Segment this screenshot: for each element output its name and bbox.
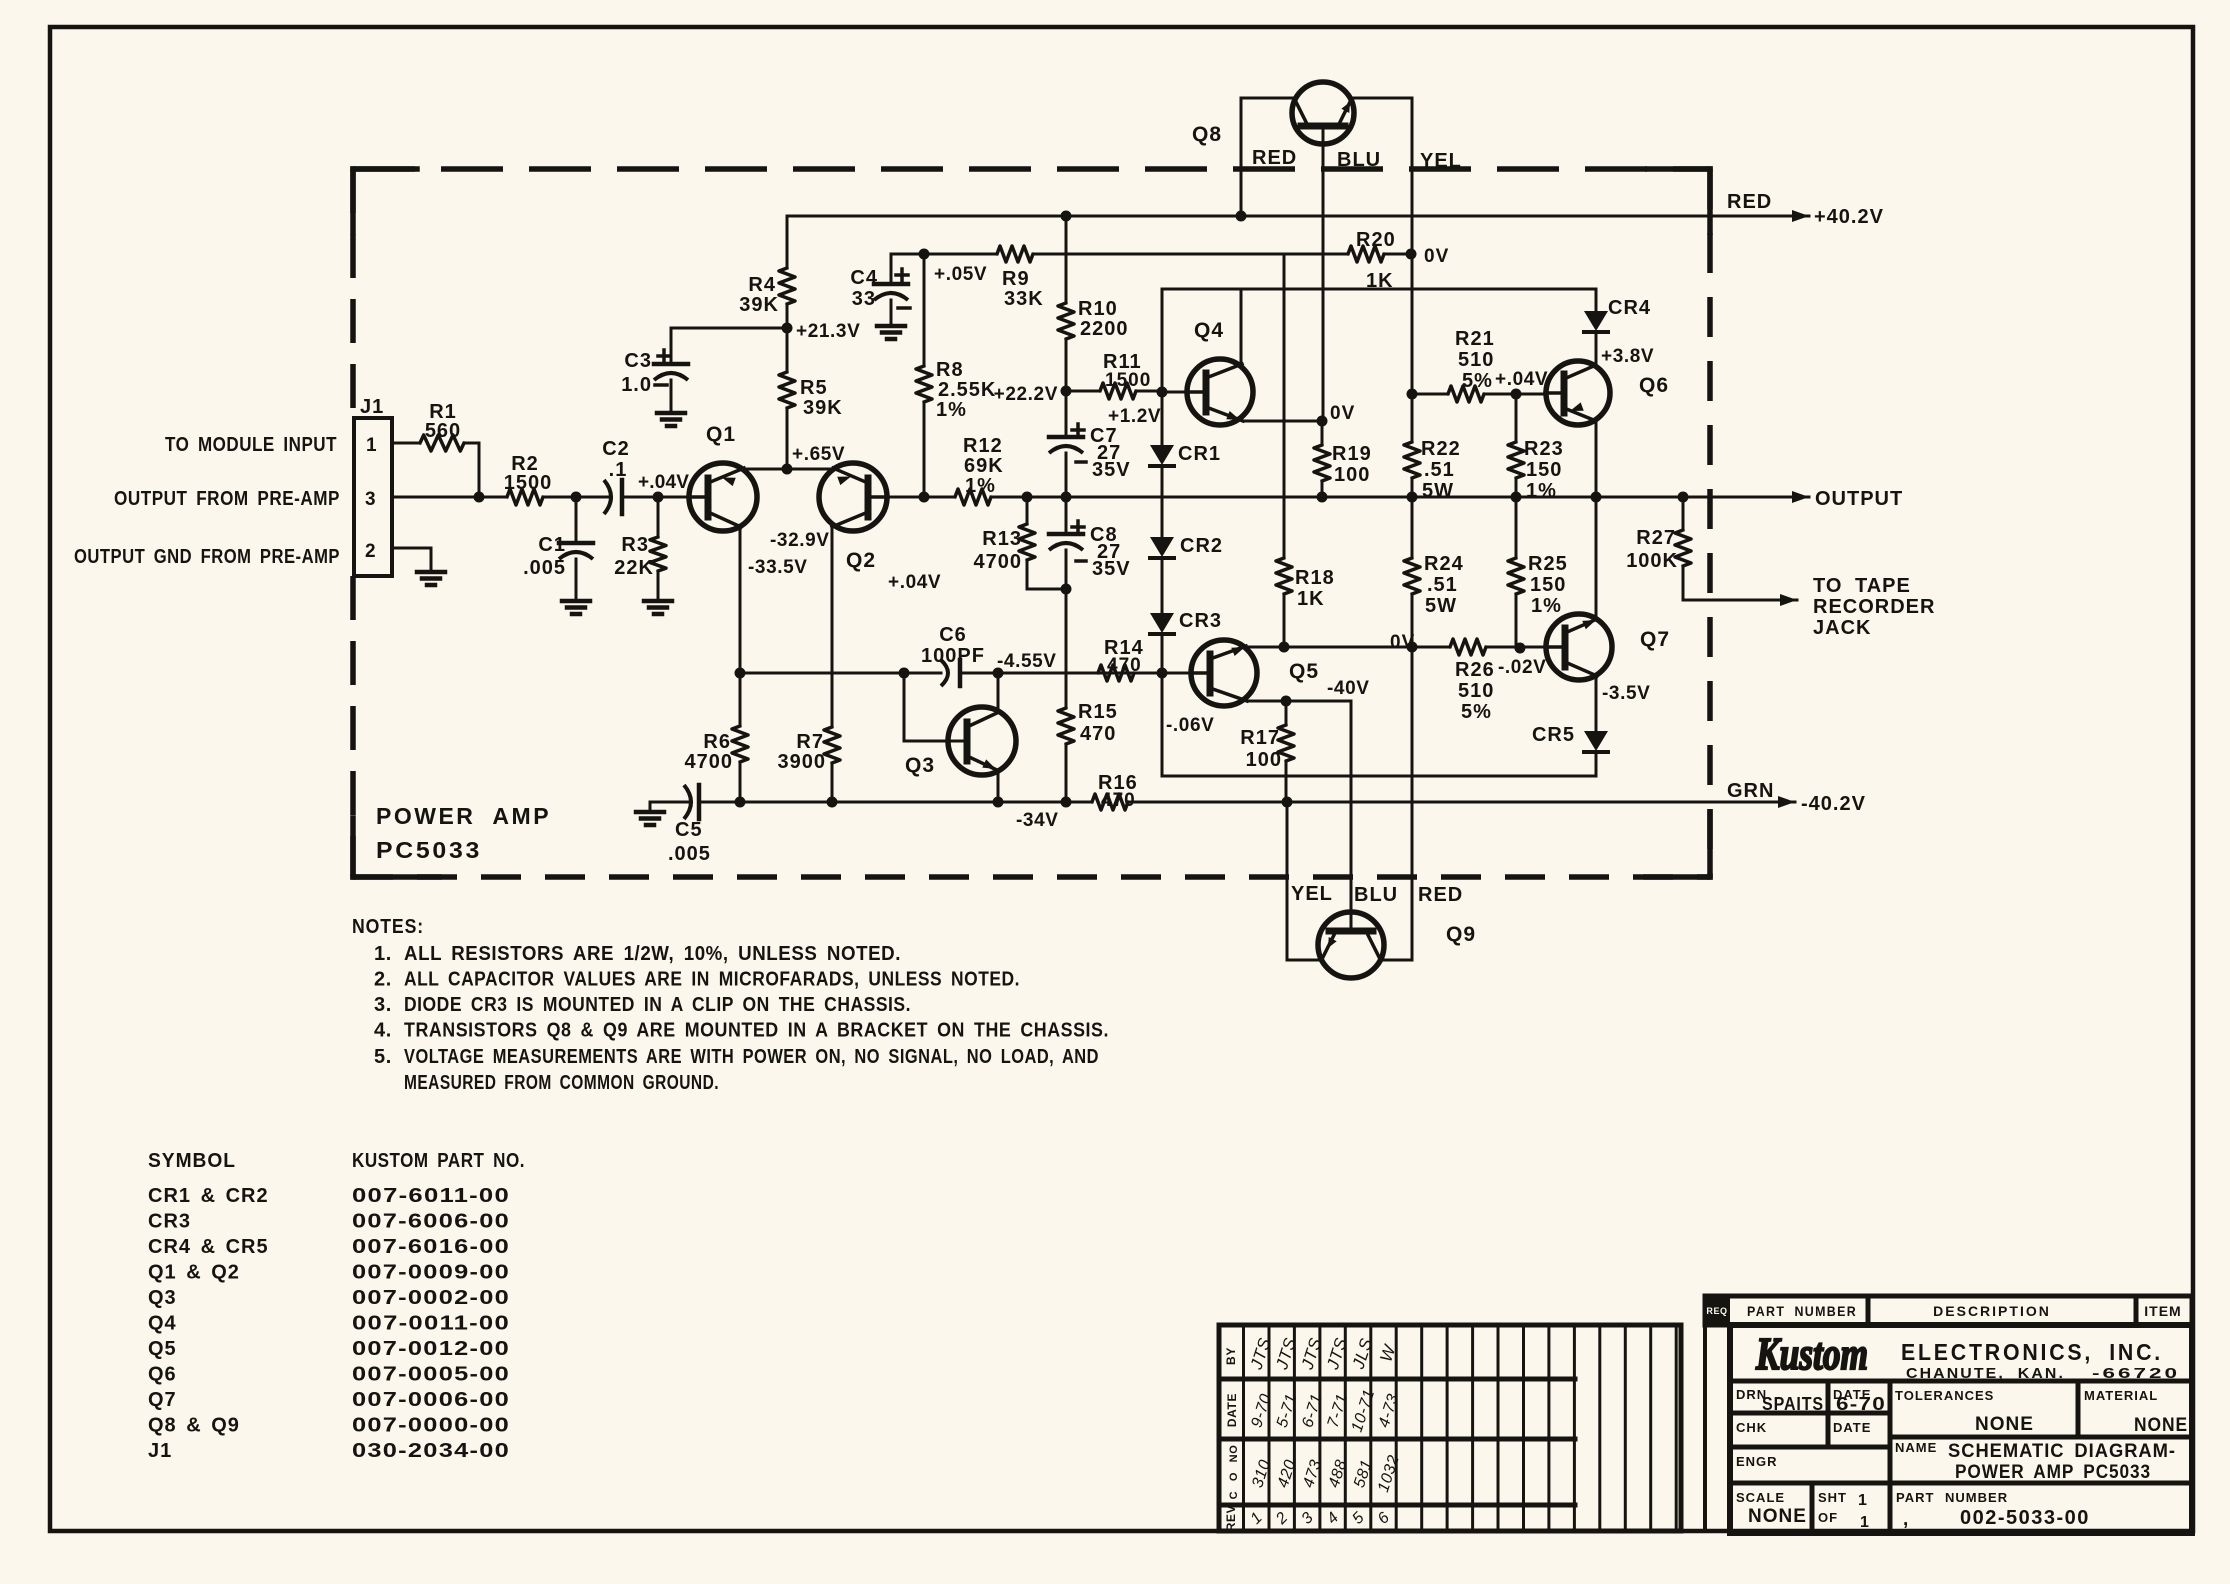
capacitor C5 xyxy=(668,785,711,865)
svg-text:+.04V: +.04V xyxy=(638,472,689,493)
wire node to R3 xyxy=(657,497,660,537)
svg-text:C5: C5 xyxy=(675,819,703,841)
svg-text:DIODE CR3 IS MOUNTED IN A CLIP: DIODE CR3 IS MOUNTED IN A CLIP ON THE CH… xyxy=(404,994,911,1016)
label -32.9V xyxy=(770,530,830,551)
resistor R13 xyxy=(974,524,1036,573)
wire R21 line xyxy=(1412,393,1545,396)
wire C4 to ground xyxy=(890,300,893,326)
svg-text:.51: .51 xyxy=(1424,459,1455,481)
svg-text:C1: C1 xyxy=(538,534,566,556)
wire R11 line xyxy=(1066,390,1162,393)
wire C8 top xyxy=(1065,497,1068,534)
label 0V mid xyxy=(1390,632,1415,653)
svg-text:Q7: Q7 xyxy=(1640,628,1670,651)
wire R5 to +21.3V node xyxy=(786,328,789,372)
svg-text:150: 150 xyxy=(1526,459,1562,481)
svg-text:R21: R21 xyxy=(1455,328,1495,350)
capacitor C7 xyxy=(1049,424,1131,481)
svg-text:+.05V: +.05V xyxy=(934,264,987,285)
svg-text:.51: .51 xyxy=(1427,574,1458,596)
svg-text:-33.5V: -33.5V xyxy=(748,557,808,578)
svg-text:GRN: GRN xyxy=(1727,780,1774,802)
svg-text:510: 510 xyxy=(1458,349,1494,371)
label +21.3V xyxy=(796,321,860,342)
node R3 junction xyxy=(653,492,664,503)
capacitor C8 xyxy=(1049,521,1131,580)
wire Q3 emitter xyxy=(997,771,1000,802)
wire R8 top xyxy=(923,254,926,366)
J1 pin 2 xyxy=(365,541,376,562)
svg-text:ENGR: ENGR xyxy=(1736,1454,1778,1469)
svg-text:Q3: Q3 xyxy=(148,1287,177,1309)
resistor R8 xyxy=(916,359,996,421)
arrow -40.2V xyxy=(1778,793,1866,815)
module outline corner pieces xyxy=(353,169,1710,877)
node Q6Q7 xyxy=(1591,492,1602,503)
wire CR4 to Q6 xyxy=(1595,332,1598,365)
wire RED bottom xyxy=(1382,647,1412,960)
svg-text:Q2: Q2 xyxy=(846,549,876,572)
svg-text:+3.8V: +3.8V xyxy=(1601,346,1654,367)
node R13 top xyxy=(1022,492,1033,503)
resistor R17 xyxy=(1240,701,1294,802)
svg-text:3900: 3900 xyxy=(778,751,827,773)
wire Q4 base xyxy=(1162,391,1190,394)
wire -34V rail xyxy=(661,801,1795,804)
wire R26 line xyxy=(1412,646,1546,649)
label -.02V xyxy=(1498,657,1546,678)
svg-text:+.65V: +.65V xyxy=(792,444,845,465)
svg-text:DESCRIPTION: DESCRIPTION xyxy=(1933,1303,2051,1319)
svg-text:33: 33 xyxy=(852,288,876,310)
title NAME xyxy=(1895,1440,2176,1483)
svg-text:002-5033-00: 002-5033-00 xyxy=(1960,1507,2090,1529)
svg-text:CHK: CHK xyxy=(1736,1420,1767,1435)
connector J1 label xyxy=(360,396,384,418)
svg-text:3.: 3. xyxy=(374,994,392,1016)
svg-text:CR4: CR4 xyxy=(1608,297,1651,319)
svg-text:39K: 39K xyxy=(803,397,843,419)
svg-text:-32.9V: -32.9V xyxy=(770,530,830,551)
svg-text:5%: 5% xyxy=(1461,701,1492,723)
transistor Q9 xyxy=(1318,912,1476,978)
node Q7 base xyxy=(1515,643,1526,654)
svg-text:.005: .005 xyxy=(668,843,711,865)
svg-text:SCHEMATIC DIAGRAM-: SCHEMATIC DIAGRAM- xyxy=(1948,1441,2176,1462)
svg-text:Q8 & Q9: Q8 & Q9 xyxy=(148,1415,240,1437)
svg-text:470: 470 xyxy=(1101,790,1136,811)
label 0V top xyxy=(1424,246,1449,267)
svg-text:Q6: Q6 xyxy=(148,1364,177,1386)
label BLU Q9 xyxy=(1354,884,1398,906)
svg-text:6-70: 6-70 xyxy=(1836,1394,1886,1414)
svg-text:69K: 69K xyxy=(964,455,1004,477)
connector J1 box xyxy=(354,418,392,576)
title header row xyxy=(1705,1296,2192,1325)
svg-text:J1: J1 xyxy=(360,396,384,418)
svg-text:5W: 5W xyxy=(1425,595,1457,617)
svg-text:R5: R5 xyxy=(800,377,828,399)
wire R6 xyxy=(739,673,742,802)
resistor R2 xyxy=(504,453,553,505)
wire R10 to +22.2V node xyxy=(1065,339,1068,391)
wire YEL bottom xyxy=(1287,802,1320,960)
node R5 bottom xyxy=(782,464,793,475)
wire rail to R10 xyxy=(1065,216,1068,303)
label OUTPUT GND FROM PRE-AMP xyxy=(74,546,340,568)
svg-text:1500: 1500 xyxy=(1105,370,1151,391)
svg-text:CR1 & CR2: CR1 & CR2 xyxy=(148,1185,269,1207)
svg-text:Q4: Q4 xyxy=(148,1313,177,1335)
node 0V R20 xyxy=(1406,249,1417,260)
svg-text:1%: 1% xyxy=(1526,480,1557,502)
svg-text:Q1: Q1 xyxy=(706,423,736,446)
svg-text:Q5: Q5 xyxy=(1289,660,1319,683)
title DRN xyxy=(1736,1387,1824,1414)
title company xyxy=(1901,1339,2180,1382)
label RED top right xyxy=(1727,191,1772,213)
ground J1 pin2 xyxy=(417,572,445,585)
resistor R19 xyxy=(1314,443,1372,486)
svg-text:RED: RED xyxy=(1252,147,1297,169)
wire CR1 CR2 xyxy=(1161,466,1164,537)
wire R4 to +40.2V rail xyxy=(786,216,789,268)
ground R3 xyxy=(644,601,672,614)
svg-text:YEL: YEL xyxy=(1420,150,1462,172)
wire Q8 RED xyxy=(1241,98,1295,216)
svg-text:-.06V: -.06V xyxy=(1166,715,1214,736)
svg-text:-40.2V: -40.2V xyxy=(1801,793,1866,815)
resistor R16 xyxy=(1092,772,1138,811)
title header labels xyxy=(1706,1303,2181,1319)
transistor Q3 xyxy=(905,707,1016,777)
transistor Q8 xyxy=(1192,82,1354,146)
label YEL Q8 xyxy=(1420,150,1462,172)
svg-text:2200: 2200 xyxy=(1080,318,1129,340)
resistor R10 xyxy=(1058,298,1129,340)
svg-text:SYMBOL: SYMBOL xyxy=(148,1150,236,1172)
arrow OUTPUT xyxy=(1792,488,1903,510)
node C7 output rail xyxy=(1061,492,1072,503)
svg-text:007-0011-00: 007-0011-00 xyxy=(352,1313,510,1335)
svg-text:NONE: NONE xyxy=(1975,1414,2034,1435)
svg-text:MATERIAL: MATERIAL xyxy=(2084,1388,2158,1403)
transistor Q1 xyxy=(689,423,757,531)
label +22.2V xyxy=(994,384,1058,405)
wire pin2 to ground xyxy=(392,548,431,572)
svg-text:.1: .1 xyxy=(609,459,628,481)
resistor R7 xyxy=(778,727,841,773)
wire CR5 bottom xyxy=(1595,752,1598,776)
label GRN xyxy=(1727,780,1774,802)
wire R13 elbow xyxy=(1027,560,1066,589)
transistor Q7 xyxy=(1546,614,1670,680)
arrow tape recorder xyxy=(1780,594,1797,606)
svg-text:+.04V: +.04V xyxy=(888,572,941,593)
node R6 bottom xyxy=(735,797,746,808)
svg-text:Q9: Q9 xyxy=(1446,923,1476,946)
notes list xyxy=(374,943,1109,1094)
parts list rows xyxy=(148,1185,510,1462)
wire node to C1 xyxy=(575,497,578,543)
svg-text:R17: R17 xyxy=(1240,727,1280,749)
svg-text:470: 470 xyxy=(1080,723,1116,745)
svg-text:CR1: CR1 xyxy=(1178,443,1221,465)
svg-text:ELECTRONICS, INC.: ELECTRONICS, INC. xyxy=(1901,1339,2163,1365)
svg-text:C3: C3 xyxy=(624,350,652,372)
module outline dashed left xyxy=(350,169,356,877)
svg-text:100: 100 xyxy=(1334,464,1370,486)
wire R8 bottom xyxy=(923,402,926,497)
svg-text:470: 470 xyxy=(1107,655,1142,676)
svg-text:SCALE: SCALE xyxy=(1736,1490,1785,1505)
wire R2 to C2 xyxy=(543,496,610,499)
wire C3 to ground xyxy=(670,380,673,413)
svg-text:RECORDER: RECORDER xyxy=(1813,596,1935,618)
wire Q1 collector xyxy=(739,527,742,673)
node R23R25 xyxy=(1511,492,1522,503)
svg-text:R26: R26 xyxy=(1455,659,1495,681)
label +1.2V xyxy=(1108,406,1161,427)
label +.05V xyxy=(934,264,987,285)
label RED Q8 xyxy=(1252,147,1297,169)
svg-text:1500: 1500 xyxy=(504,472,553,494)
wire Q7 emitter xyxy=(1595,497,1598,619)
svg-text:007-0000-00: 007-0000-00 xyxy=(352,1415,510,1437)
svg-text:+40.2V: +40.2V xyxy=(1814,206,1884,228)
node R21 YEL xyxy=(1407,389,1418,400)
label -40V xyxy=(1327,678,1370,699)
svg-text:R23: R23 xyxy=(1524,438,1564,460)
wire Q2 collector xyxy=(831,527,834,727)
svg-text:5%: 5% xyxy=(1462,370,1493,392)
svg-text:Q6: Q6 xyxy=(1639,374,1669,397)
svg-text:KUSTOM PART NO.: KUSTOM PART NO. xyxy=(352,1150,525,1172)
svg-text:R6: R6 xyxy=(703,731,731,753)
resistor R25 xyxy=(1508,497,1568,648)
svg-text:C O NO: C O NO xyxy=(1228,1445,1240,1500)
svg-text:1: 1 xyxy=(1860,1514,1870,1531)
node 0V RED xyxy=(1407,642,1418,653)
svg-text:REQ: REQ xyxy=(1706,1306,1727,1316)
svg-text:030-2034-00: 030-2034-00 xyxy=(352,1440,510,1462)
node RED top xyxy=(1236,211,1247,222)
svg-text:TRANSISTORS Q8 & Q9 ARE MOUNTE: TRANSISTORS Q8 & Q9 ARE MOUNTED IN A BRA… xyxy=(404,1020,1109,1042)
transistor Q4 xyxy=(1187,319,1253,425)
node Q3 emitter rail xyxy=(993,797,1004,808)
svg-text:SHT: SHT xyxy=(1818,1490,1847,1505)
wire node to R4 xyxy=(786,304,789,328)
wire Q5 emitter line xyxy=(1246,646,1284,649)
parts list heading xyxy=(148,1150,525,1172)
svg-text:R18: R18 xyxy=(1295,567,1335,589)
svg-text:007-0005-00: 007-0005-00 xyxy=(352,1364,510,1386)
svg-text:CR2: CR2 xyxy=(1180,535,1223,557)
wire Q7 collector xyxy=(1595,676,1598,731)
svg-text:1%: 1% xyxy=(936,399,967,421)
svg-text:4700: 4700 xyxy=(685,751,734,773)
resistor R5 xyxy=(779,372,843,419)
node Q3 base elbow xyxy=(899,668,910,679)
title SHT xyxy=(1818,1490,1870,1531)
resistor R18 xyxy=(1276,558,1335,610)
ground C1 xyxy=(562,601,590,614)
svg-text:-40V: -40V xyxy=(1327,678,1370,699)
svg-text:OUTPUT GND FROM PRE-AMP: OUTPUT GND FROM PRE-AMP xyxy=(74,546,340,568)
module name POWER AMP PC5033 xyxy=(376,803,551,863)
node Q5 emitter R18 xyxy=(1279,642,1290,653)
node R15 -34V rail xyxy=(1061,797,1072,808)
svg-text:NAME: NAME xyxy=(1895,1440,1937,1455)
svg-text:R7: R7 xyxy=(796,731,824,753)
svg-text:Q7: Q7 xyxy=(148,1389,177,1411)
svg-text:+21.3V: +21.3V xyxy=(796,321,860,342)
node Q4 base xyxy=(1157,387,1168,398)
wire C2 to Q1 xyxy=(622,496,689,499)
wire +40.2V rail xyxy=(787,215,1809,218)
title SCALE xyxy=(1736,1490,1807,1527)
wire CR chain top xyxy=(1161,289,1164,445)
wire +21.3V to C3 xyxy=(671,327,787,330)
svg-text:2.55K: 2.55K xyxy=(938,379,996,401)
node +21.3V xyxy=(782,323,793,334)
svg-text:CR5: CR5 xyxy=(1532,724,1575,746)
label RED Q9 xyxy=(1418,884,1463,906)
resistor R14 xyxy=(1098,637,1144,681)
resistor R9 xyxy=(997,246,1044,310)
wire line to C4 xyxy=(890,254,893,284)
svg-text:560: 560 xyxy=(425,420,461,442)
capacitor C2 xyxy=(602,438,630,514)
svg-text:PART NUMBER: PART NUMBER xyxy=(1747,1303,1857,1319)
svg-text:JACK: JACK xyxy=(1813,617,1871,639)
label OUTPUT FROM PRE-AMP xyxy=(114,488,340,510)
node R22R24 xyxy=(1407,492,1418,503)
svg-text:1K: 1K xyxy=(1297,588,1325,610)
resistor R4 xyxy=(739,268,795,316)
wire R13 top xyxy=(1026,497,1029,524)
svg-text:R20: R20 xyxy=(1356,229,1396,251)
wire R19 bottom xyxy=(1321,481,1324,497)
node R27 top xyxy=(1678,492,1689,503)
transistor Q2 xyxy=(819,463,887,572)
svg-text:TO MODULE INPUT: TO MODULE INPUT xyxy=(165,434,337,456)
svg-text:Q1 & Q2: Q1 & Q2 xyxy=(148,1262,240,1284)
title MATERIAL xyxy=(2084,1388,2188,1436)
svg-text:DATE: DATE xyxy=(1833,1420,1871,1435)
svg-text:+22.2V: +22.2V xyxy=(994,384,1058,405)
svg-text:+.04V: +.04V xyxy=(1495,369,1548,390)
svg-text:Q5: Q5 xyxy=(148,1338,177,1360)
svg-text:1%: 1% xyxy=(1531,595,1562,617)
resistor R21 xyxy=(1448,328,1495,402)
wire wraparound xyxy=(1162,673,1596,776)
label +.04V Q6 xyxy=(1495,369,1548,390)
svg-text:R8: R8 xyxy=(936,359,964,381)
wire C8 to R15 xyxy=(1065,550,1068,708)
svg-text:BLU: BLU xyxy=(1354,884,1398,906)
wire Q4 collector xyxy=(1240,289,1243,364)
wire R19 xyxy=(1321,421,1324,445)
node R17 top xyxy=(1281,696,1292,707)
svg-text:OF: OF xyxy=(1818,1510,1838,1525)
wire C5 ground stub xyxy=(650,802,661,812)
svg-text:007-6006-00: 007-6006-00 xyxy=(352,1211,510,1233)
svg-text:39K: 39K xyxy=(739,294,779,316)
node Q1 collector rail xyxy=(735,668,746,679)
title ENGR xyxy=(1736,1454,1778,1469)
svg-text:R4: R4 xyxy=(748,274,776,296)
svg-text:22K: 22K xyxy=(614,557,654,579)
wire pin1 to R1 xyxy=(392,442,420,445)
transistor Q6 xyxy=(1545,361,1669,425)
title DATE1 xyxy=(1833,1387,1886,1414)
svg-text:NOTES:: NOTES: xyxy=(352,916,424,938)
svg-text:100: 100 xyxy=(1246,749,1282,771)
resistor R3 xyxy=(614,534,666,579)
svg-text:1.: 1. xyxy=(374,943,392,965)
wire Q3 base elbow xyxy=(904,673,968,741)
svg-text:BY: BY xyxy=(1224,1347,1238,1365)
wire Q6 emitter xyxy=(1595,421,1598,497)
arrow +40.2V xyxy=(1792,206,1884,228)
label BLU Q8 xyxy=(1337,149,1381,171)
ground C4 xyxy=(877,326,905,339)
resistor R12 xyxy=(955,435,1004,505)
svg-text:+1.2V: +1.2V xyxy=(1108,406,1161,427)
label +3.8V xyxy=(1601,346,1654,367)
diode CR2 xyxy=(1150,535,1223,558)
svg-text:NONE: NONE xyxy=(2134,1415,2188,1436)
label -34V xyxy=(1016,810,1059,831)
module outline dashed bottom xyxy=(353,874,1710,880)
resistor R24 xyxy=(1404,497,1464,647)
svg-text:R3: R3 xyxy=(621,534,649,556)
node R13 C8 xyxy=(1061,584,1072,595)
svg-text:007-0012-00: 007-0012-00 xyxy=(352,1338,510,1360)
revision table grid xyxy=(1219,1325,1681,1531)
svg-text:J1: J1 xyxy=(148,1440,172,1462)
capacitor C1 xyxy=(523,534,593,579)
label -3.5V xyxy=(1602,683,1650,704)
svg-text:OUTPUT: OUTPUT xyxy=(1815,488,1903,510)
svg-text:R13: R13 xyxy=(982,528,1022,550)
wire node to R5 xyxy=(786,408,789,469)
svg-text:Kustom: Kustom xyxy=(1755,1328,1868,1379)
wire inner box top xyxy=(1162,288,1596,291)
svg-text:510: 510 xyxy=(1458,680,1494,702)
svg-text:1.0: 1.0 xyxy=(621,374,652,396)
svg-text:35V: 35V xyxy=(1092,558,1131,580)
svg-text:007-0009-00: 007-0009-00 xyxy=(352,1262,510,1284)
svg-text:R27: R27 xyxy=(1636,527,1676,549)
svg-text:REV: REV xyxy=(1224,1505,1238,1531)
wire Q5 collector line xyxy=(1247,700,1351,703)
ground C3 xyxy=(657,413,685,426)
wire C7 bottom xyxy=(1065,453,1068,497)
resistor R6 xyxy=(685,726,749,773)
label +.04V Q2 xyxy=(888,572,941,593)
module outline dashed top xyxy=(353,166,1710,172)
transistor Q5 xyxy=(1191,640,1319,706)
diode CR1 xyxy=(1150,443,1221,466)
label TO TAPE RECORDER JACK xyxy=(1813,575,1935,639)
node R19 bottom xyxy=(1317,492,1328,503)
svg-text:MEASURED FROM COMMON GROUND.: MEASURED FROM COMMON GROUND. xyxy=(404,1072,719,1094)
svg-text:Q8: Q8 xyxy=(1192,123,1222,146)
svg-text:CR3: CR3 xyxy=(1179,610,1222,632)
wire C7 top xyxy=(1065,391,1068,437)
